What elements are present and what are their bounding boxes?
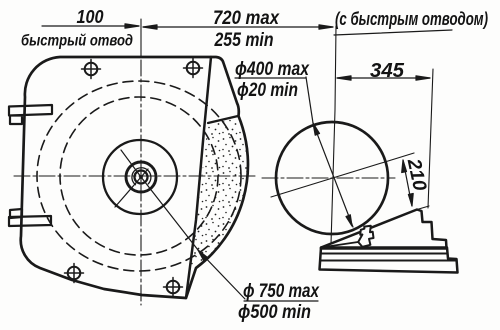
- latch tab 1: [9, 105, 52, 124]
- svg-text:быстрый отвод: быстрый отвод: [21, 33, 133, 50]
- svg-text:(с быстрым отводом): (с быстрым отводом): [335, 9, 488, 29]
- hub spiral arc: [132, 168, 151, 185]
- extension line E1 through center: [271, 153, 414, 197]
- phi400 leader: [306, 77, 313, 123]
- vertical centerline housing: [140, 60, 142, 305]
- phi400 underline: [235, 77, 306, 79]
- right horizontal centerline: [262, 177, 395, 179]
- svg-text:ϕ400 max: ϕ400 max: [235, 59, 310, 80]
- hub center dot: [139, 175, 143, 179]
- hub diagonal line SW: [115, 169, 148, 207]
- svg-text:ϕ 750 max: ϕ 750 max: [243, 281, 320, 302]
- bevel corner bottom line: [208, 116, 238, 123]
- phi750 leader with arrow: [198, 250, 245, 299]
- svg-text:ϕ20 min: ϕ20 min: [237, 80, 298, 101]
- horizontal centerline housing: [14, 175, 258, 177]
- table top extension: [417, 206, 429, 210]
- table wedge: [321, 210, 447, 249]
- outer dashed wheel circle (750 max): [37, 81, 241, 271]
- T-clamp: [358, 226, 373, 247]
- hub bold ring: [126, 162, 156, 192]
- svg-text:210: 210: [403, 156, 430, 193]
- right circle (workpiece): [276, 122, 388, 234]
- base plates: [320, 248, 458, 273]
- svg-text:255 min: 255 min: [214, 30, 274, 51]
- dim 720/255 line: [143, 25, 333, 29]
- diameter line with arrows: [313, 123, 353, 227]
- hub circle: [135, 171, 148, 184]
- screw top-left: [82, 60, 101, 79]
- svg-text:720 max: 720 max: [213, 8, 280, 29]
- front cover edge line: [186, 57, 211, 298]
- extension/center line right view vertical: [331, 26, 336, 244]
- wheel segment stipple fill: [190, 117, 247, 272]
- dim 100 line: [42, 24, 139, 28]
- extension line wheel center left: [140, 19, 142, 57]
- svg-text:ϕ500 min: ϕ500 min: [238, 302, 311, 323]
- screw bottom-left: [65, 264, 84, 283]
- screw bottom-right: [164, 278, 183, 297]
- svg-text:100: 100: [77, 7, 104, 27]
- svg-text:345: 345: [370, 60, 405, 82]
- housing outline: [21, 57, 248, 298]
- big solid circle: [103, 140, 177, 214]
- underline (с быстрым отводом): [334, 30, 452, 35]
- dim 210: [402, 160, 414, 206]
- latch tab 2: [9, 209, 51, 226]
- phi750 underline: [244, 300, 318, 302]
- screw top-right: [184, 59, 203, 78]
- hub diagonal line NW-SE: [121, 150, 198, 250]
- inner dashed wheel circle (500 min): [60, 97, 218, 255]
- wedge second incline line: [321, 242, 358, 248]
- right extension line: [428, 69, 433, 208]
- dim 345: [337, 76, 430, 80]
